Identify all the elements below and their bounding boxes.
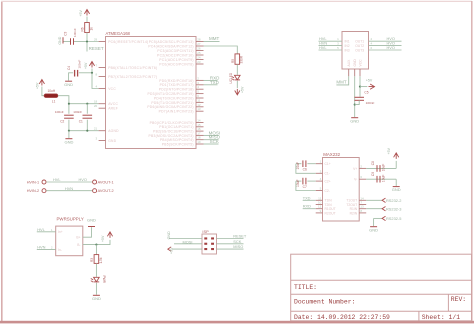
ground bar rotated (C3) [62, 37, 64, 43]
wire to R3 [95, 245, 97, 255]
svg-text:+5V: +5V [84, 62, 88, 69]
svg-text:V+: V+ [353, 167, 357, 171]
wire C6 left side [296, 163, 302, 165]
capacitor C5 [354, 96, 364, 98]
svg-text:RXD: RXD [303, 204, 311, 209]
wire to ground (AGND) [68, 131, 70, 138]
net arrow RS232-5 [382, 216, 385, 220]
wire down to ground (C9) [395, 179, 397, 186]
svg-text:L1: L1 [52, 100, 56, 104]
svg-text:C2: C2 [60, 119, 64, 123]
svg-text:100nF: 100nF [73, 28, 77, 37]
wire LED PWR to ground [95, 283, 97, 295]
svg-text:MAX232: MAX232 [323, 152, 340, 157]
svg-text:23: 23 [197, 60, 201, 64]
capacitor C3 [70, 38, 72, 45]
svg-text:VCC: VCC [108, 87, 116, 91]
wire ISP to RESET net [217, 238, 244, 240]
wire +5V to L1 [42, 87, 44, 96]
title block row divider 1 [291, 279, 472, 281]
HV switch block U$1 [342, 32, 369, 70]
svg-text:In+: In+ [58, 230, 63, 234]
wire R3 to LED PWR [95, 263, 97, 277]
svg-text:C2+: C2+ [325, 180, 331, 184]
svg-text:10uH: 10uH [48, 89, 56, 93]
wire HV switch VCC pin down to C5 [359, 76, 361, 97]
wire net MISO (ATMEGA) [204, 139, 219, 141]
svg-text:AVOUT-1: AVOUT-1 [98, 180, 114, 184]
svg-text:PB7(XTAL2/TOSC2/PCINT7): PB7(XTAL2/TOSC2/PCINT7) [108, 75, 157, 79]
+5V supply arrow (L1) [39, 80, 44, 86]
svg-text:AREF: AREF [108, 107, 118, 111]
svg-text:In-: In- [58, 248, 62, 252]
wire AGND rail [69, 130, 99, 132]
svg-text:UCLED: UCLED [229, 72, 233, 84]
title block outer rectangle [291, 254, 472, 321]
svg-text:PC0(ADC0/PCINT8): PC0(ADC0/PCINT8) [159, 62, 194, 66]
svg-text:21: 21 [94, 127, 98, 131]
wire LED to +5V (down) [236, 81, 238, 88]
svg-text:25: 25 [197, 51, 201, 55]
svg-text:GND: GND [108, 139, 117, 143]
wire HVIN-2 to AVOUT-2 [46, 190, 92, 192]
svg-text:PD5(T1/OC0B/PCINT21): PD5(T1/OC0B/PCINT21) [151, 101, 193, 105]
svg-text:B+: B+ [76, 236, 80, 240]
svg-text:GND: GND [392, 187, 401, 192]
MAX232 left pins with numbers and names [316, 163, 323, 165]
wire net MMT (ATMEGA PC5) [204, 41, 220, 43]
resistor R5 [235, 54, 240, 64]
wire RESET label stub [86, 42, 88, 52]
wire +5V to VCC pin [92, 69, 99, 89]
svg-text:18: 18 [94, 100, 98, 104]
svg-text:PD4(T0/XCK/PCINT20): PD4(T0/XCK/PCINT20) [154, 96, 194, 100]
title block row divider 3 [291, 310, 472, 312]
svg-text:ATMEGA168: ATMEGA168 [106, 31, 131, 36]
svg-text:PD2(INT0/PCINT18): PD2(INT0/PCINT18) [159, 88, 194, 92]
svg-text:C1+: C1+ [325, 162, 331, 166]
svg-text:PC2(ADC2/PCINT10): PC2(ADC2/PCINT10) [157, 53, 194, 57]
wire net MOSI (ATMEGA) [204, 134, 219, 136]
wire C7 left side [296, 180, 302, 182]
LED PWR [94, 277, 100, 282]
IC MAX232 [323, 158, 360, 222]
junction +5V / R3 [95, 244, 97, 246]
+5V supply arrow pointing right (HV switch) [369, 84, 375, 89]
LED UCLED [235, 75, 241, 80]
svg-text:1.5k: 1.5k [99, 257, 103, 263]
svg-text:29: 29 [94, 38, 98, 42]
wire R1IN to RS232-3 [366, 208, 382, 210]
svg-text:TITLE:: TITLE: [294, 284, 317, 291]
svg-text:GND: GND [350, 118, 359, 123]
wire C4 to VCC net [79, 72, 92, 74]
wire C5 bottom to GND net [355, 100, 360, 104]
junction VCC/+5V branch [359, 86, 361, 88]
wire net HVL to IN3 [319, 49, 343, 51]
svg-text:C6: C6 [303, 167, 307, 171]
ATMEGA168 left pins with numbers and names [99, 41, 106, 43]
wire R5 to LED UCLED [236, 64, 238, 75]
wire ISP pin1 to GND net [169, 238, 202, 240]
svg-text:10uF: 10uF [381, 175, 385, 183]
svg-text:AVCC: AVCC [108, 102, 118, 106]
svg-text:R5: R5 [231, 59, 235, 63]
svg-text:PB5(SCK/PCINT5): PB5(SCK/PCINT5) [162, 142, 194, 146]
wire down to ground (RS232-5) [373, 218, 375, 226]
svg-text:SCK: SCK [210, 139, 219, 144]
capacitor C4 [74, 70, 76, 77]
svg-text:R3: R3 [90, 258, 94, 262]
svg-text:RS232-5: RS232-5 [386, 216, 401, 221]
svg-text:+5V: +5V [170, 247, 174, 254]
svg-text:10uF: 10uF [296, 162, 300, 170]
wire net MMT (HV switch) [336, 76, 348, 85]
svg-text:PB6(XTAL1/TOSC1/PCINT6): PB6(XTAL1/TOSC1/PCINT6) [108, 66, 157, 70]
ISP header pads [204, 237, 207, 239]
svg-text:PD7(AIN1/PCINT23): PD7(AIN1/PCINT23) [159, 110, 194, 114]
svg-text:27: 27 [197, 42, 201, 46]
svg-text:GND: GND [64, 139, 73, 144]
connector pad HVIN-1 [42, 180, 46, 184]
wire +5V to R6 [86, 17, 88, 23]
svg-text:GND: GND [167, 231, 171, 239]
junction RESET node [86, 40, 88, 42]
wire R6 to PC6/RESET pin [87, 33, 99, 42]
wire PWRSUPPLY B+ to GND symbol [83, 227, 92, 237]
wire ISP to MOSI net [174, 243, 202, 245]
wire V+ to C8 and +5V [366, 167, 396, 169]
wire up to +5V (MAX232) [395, 161, 397, 169]
wire C1 top [86, 104, 88, 114]
ISP connector header [202, 234, 217, 254]
svg-text:AVOUT-2: AVOUT-2 [98, 189, 114, 193]
ground symbol (AGND rail) [65, 138, 72, 140]
svg-text:GND: GND [369, 227, 378, 232]
svg-text:GND: GND [92, 296, 101, 301]
capacitor C7 [302, 178, 304, 185]
wire net RXD (ATMEGA) [204, 79, 218, 81]
svg-text:13: 13 [197, 107, 201, 111]
capacitor C1 [83, 114, 93, 116]
wire C2 bottom [68, 120, 70, 131]
svg-text:PC1(ADC1/PCINT9): PC1(ADC1/PCINT9) [159, 58, 194, 62]
svg-text:OUT2: OUT2 [355, 44, 364, 48]
title block REV divider [447, 294, 449, 311]
svg-text:TXD: TXD [303, 195, 311, 200]
junction AGND/C2 [68, 130, 70, 132]
svg-text:26: 26 [197, 47, 201, 51]
svg-text:GND: GND [64, 82, 73, 87]
sheet frame bottom band [0, 321, 474, 324]
svg-text:HVIN-1: HVIN-1 [27, 180, 39, 184]
power supply module PWRSUPPLY [56, 226, 83, 256]
svg-text:PWRSUPPLY: PWRSUPPLY [57, 217, 84, 222]
svg-text:+5V: +5V [366, 79, 373, 83]
svg-text:V-: V- [354, 178, 357, 182]
+5V supply arrow (PWRSUPPLY) [107, 232, 112, 238]
svg-text:R2IN: R2IN [350, 211, 358, 215]
wire net HVL to PWRSUPPLY [37, 231, 56, 233]
svg-text:C1: C1 [79, 119, 83, 123]
wire V- to C9 and GND [366, 178, 396, 180]
connector pad AVOUT-1 [93, 180, 97, 184]
svg-text:C1-: C1- [325, 172, 330, 176]
svg-text:HVO: HVO [79, 177, 87, 182]
junction VCC/C4 [91, 72, 93, 74]
svg-text:HVL: HVL [37, 227, 45, 232]
junction C5 bottom [354, 104, 356, 106]
capacitor C2 [64, 114, 74, 116]
microcontroller IC ATMEGA168 [106, 37, 197, 149]
svg-text:PWR: PWR [102, 276, 106, 284]
+5V supply arrow (MAX232) [394, 153, 399, 159]
svg-text:Sheet: 1/1: Sheet: 1/1 [422, 314, 461, 321]
svg-text:PD6(AIN0/OC0A/PCINT22): PD6(AIN0/OC0A/PCINT22) [147, 105, 193, 109]
wire C6 to C1- pin [296, 164, 316, 174]
svg-text:+5V: +5V [101, 235, 105, 242]
svg-text:C4: C4 [67, 66, 71, 70]
junction AVCC/L1 [68, 103, 70, 105]
svg-text:HVN: HVN [65, 186, 73, 191]
wire net HVO from OUT1 [369, 40, 402, 42]
+5V supply arrow above R6 [84, 10, 89, 16]
junction AGND/C1 [86, 130, 88, 132]
svg-text:GND: GND [58, 36, 62, 44]
svg-text:C2-: C2- [325, 189, 330, 193]
svg-text:100nF: 100nF [366, 101, 375, 105]
svg-text:PC4(ADC4/SDA/PCINT12): PC4(ADC4/SDA/PCINT12) [148, 44, 193, 48]
wire C6 to C1+ pin [307, 163, 315, 165]
svg-text:OUT1: OUT1 [355, 40, 364, 44]
svg-text:330R: 330R [240, 55, 244, 63]
capacitor C8 [376, 165, 378, 172]
net arrow RS232-2 [382, 198, 385, 202]
svg-text:+5V: +5V [387, 147, 391, 154]
wire ISP to SCK net [217, 243, 244, 245]
svg-text:REV:: REV: [451, 296, 466, 303]
connector pad HVIN-2 [42, 189, 46, 193]
svg-text:MMT: MMT [336, 80, 346, 85]
svg-text:MMT: MMT [209, 36, 219, 41]
MAX232 right pins with numbers and names [359, 167, 366, 169]
wire PWRSUPPLY B- to +5V [83, 240, 110, 245]
svg-text:ISP: ISP [202, 229, 209, 234]
inductor L1 [44, 94, 58, 98]
svg-text:10uF: 10uF [381, 164, 385, 172]
net arrow (ISP +5V) [168, 247, 171, 251]
ATMEGA168 right pins with numbers and names [196, 41, 204, 43]
svg-text:GND: GND [353, 59, 357, 67]
capacitor C6 [302, 160, 304, 167]
wire T1OUT to RS232-2 [366, 199, 382, 201]
wire net HVN to PWRSUPPLY [37, 249, 56, 251]
title block Sheet divider [418, 311, 420, 321]
wire ISP to MISO net [217, 248, 244, 250]
svg-text:20: 20 [94, 104, 98, 108]
wire net HVO from OUT2 [369, 45, 402, 47]
svg-text:HVL: HVL [319, 45, 327, 50]
sheet frame right edge [471, 1, 473, 322]
svg-text:+5V: +5V [79, 10, 83, 17]
ground symbol (HV switch) [351, 117, 358, 119]
svg-text:+5V: +5V [36, 82, 40, 89]
HV switch bottom pin stubs [348, 69, 350, 76]
wire C3 to RESET node [74, 41, 87, 43]
svg-text:+5V: +5V [241, 86, 245, 93]
wire HV switch GND pin down [354, 76, 356, 117]
svg-text:PC5(ADC5/SCL/PCINT13): PC5(ADC5/SCL/PCINT13) [149, 40, 194, 44]
ground symbol (PWRSUPPLY) [88, 226, 95, 228]
wire net TXD to T1IN [303, 199, 316, 201]
svg-text:24: 24 [197, 56, 201, 60]
svg-text:PD0(RXD/PCINT16): PD0(RXD/PCINT16) [159, 79, 194, 83]
wire net HVL to IN1 [319, 40, 343, 42]
svg-text:IN3: IN3 [345, 48, 350, 52]
wire PC4 to R5 [204, 46, 238, 54]
svg-text:HVL: HVL [53, 177, 61, 182]
svg-text:MISO: MISO [233, 244, 243, 249]
sheet frame top edge [1, 0, 472, 2]
svg-text:10uF: 10uF [296, 179, 300, 187]
wire net SCK (ATMEGA) [204, 143, 219, 145]
capacitor C9 [376, 176, 378, 183]
ground symbol (RS232-5) [370, 226, 377, 228]
svg-text:Document Number:: Document Number: [294, 299, 355, 306]
wire net HVN to IN2 [319, 45, 343, 47]
svg-text:C7: C7 [303, 185, 307, 189]
svg-text:HVIN-2: HVIN-2 [27, 189, 39, 193]
svg-text:AUX: AUX [347, 59, 351, 67]
svg-text:B-: B- [77, 243, 80, 247]
svg-text:100nF: 100nF [77, 60, 81, 69]
svg-text:HVN: HVN [37, 245, 45, 250]
wire net RXD to R1OUT [303, 208, 316, 210]
svg-text:C9: C9 [371, 172, 375, 176]
svg-text:PC6(/RESET/PCINT14): PC6(/RESET/PCINT14) [108, 40, 148, 44]
svg-text:TXD: TXD [210, 80, 220, 85]
svg-text:RS232-2: RS232-2 [386, 198, 401, 203]
svg-text:19: 19 [197, 140, 201, 144]
wire RS232-5 to ground [374, 217, 383, 219]
svg-text:SCK: SCK [233, 239, 241, 244]
wire ISP to +5V net [172, 248, 202, 250]
svg-text:IN1: IN1 [345, 40, 350, 44]
svg-text:AGND: AGND [108, 129, 119, 133]
wire GND to C3 [63, 41, 70, 43]
wire C1 bottom [86, 120, 88, 131]
resistor R3 [94, 255, 99, 264]
svg-text:R6: R6 [81, 27, 85, 31]
wire HVIN-1 to AVOUT-1 [46, 181, 92, 183]
svg-text:RESET: RESET [233, 234, 247, 239]
svg-text:1k: 1k [90, 27, 94, 31]
wire net TXD (ATMEGA) [204, 84, 218, 86]
svg-text:RS232-3: RS232-3 [386, 206, 401, 211]
svg-text:100nF: 100nF [55, 110, 64, 114]
junction AVCC/C1 [86, 103, 88, 105]
svg-text:28: 28 [197, 38, 201, 42]
svg-text:VCC: VCC [358, 59, 362, 67]
svg-text:12: 12 [197, 103, 201, 107]
svg-text:PD3(INT1/OC2B/PCINT19): PD3(INT1/OC2B/PCINT19) [148, 92, 194, 96]
svg-text:C8: C8 [371, 161, 375, 165]
connector pad AVOUT-2 [93, 189, 97, 193]
sheet frame left edge [1, 1, 3, 322]
+5V supply arrow (VCC pin) [89, 62, 94, 68]
svg-text:PD1(TXD/PCINT17): PD1(TXD/PCINT17) [160, 83, 194, 87]
title block row divider 2 [291, 293, 472, 295]
svg-text:MOSI: MOSI [183, 240, 193, 245]
svg-text:PC3(ADC3/PCINT11): PC3(ADC3/PCINT11) [157, 49, 193, 53]
svg-text:11: 11 [197, 98, 200, 102]
wire C7 to C2- pin [296, 181, 316, 190]
ground symbol (C4) [65, 80, 72, 82]
net arrow RS232-3 [382, 207, 385, 211]
ground symbol (MAX232 V-) [393, 186, 400, 188]
wire L1 to AVCC rail / C2 top [58, 96, 69, 114]
svg-text:R2OUT: R2OUT [325, 211, 336, 215]
svg-text:RESET: RESET [89, 46, 104, 51]
wire to +5V arrow (HV switch) [360, 86, 367, 88]
svg-text:100nF: 100nF [73, 110, 82, 114]
svg-text:C3: C3 [63, 31, 67, 35]
svg-text:Date: 14.09.2012 22:27:59: Date: 14.09.2012 22:27:59 [294, 314, 390, 321]
svg-text:HVO: HVO [387, 45, 395, 50]
svg-text:IN2: IN2 [345, 44, 350, 48]
resistor R6 [85, 23, 90, 33]
wire net HVO from OUT3 [369, 49, 402, 51]
wire C4 to ground [69, 73, 74, 81]
svg-text:OUT3: OUT3 [355, 48, 364, 52]
wire AVCC rail to AVCC pin [69, 103, 99, 105]
svg-text:C5: C5 [364, 90, 368, 94]
+5V supply arrow pointing down (UCLED) [235, 89, 240, 95]
ground symbol (PWR LED) [93, 294, 100, 296]
svg-text:GND: GND [87, 217, 96, 222]
wire C7 to C2+ pin [307, 180, 315, 182]
